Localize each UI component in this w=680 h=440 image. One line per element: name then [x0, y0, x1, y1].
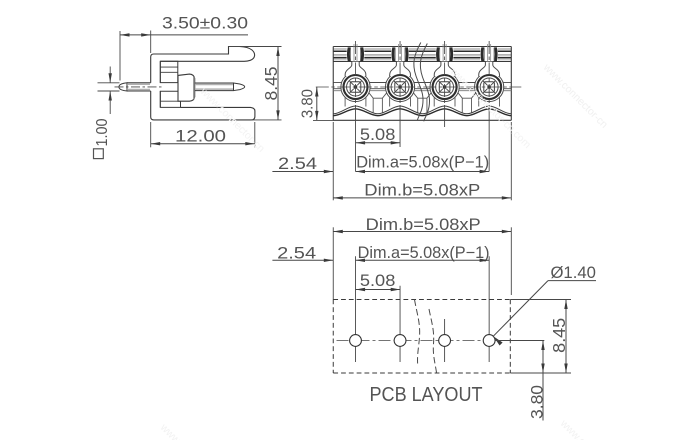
dimension 3.50±0.30	[120, 13, 248, 80]
pcb: horizontal center line	[337, 340, 545, 342]
svg-text:12.00: 12.00	[175, 126, 226, 145]
watermark	[157, 61, 610, 440]
front view: saddle bars	[333, 83, 511, 91]
pcb: break lines	[415, 300, 437, 375]
front view: terminal 2	[385, 62, 414, 102]
pcb: dimension 3.80	[495, 341, 546, 421]
pcb: dimension Ø1.40	[493, 263, 596, 346]
pcb: dimension 8.45	[510, 300, 571, 374]
pcb: dimension Dim.a	[356, 244, 490, 262]
pcb: holes	[350, 335, 495, 347]
svg-text:www.connector-cn: www.connector-cn	[540, 61, 610, 131]
svg-text:www.c: www.c	[157, 421, 188, 440]
side view: upper contact cage	[160, 61, 178, 82]
side view: right pin	[195, 83, 245, 91]
side view: lower contact cage	[160, 91, 180, 107]
dimension 12.00	[151, 122, 255, 147]
pcb: dimension 2.54	[272, 244, 333, 263]
front view: terminal center lines	[356, 41, 490, 172]
front view: terminal 3	[430, 62, 459, 102]
side view: housing outline	[151, 47, 255, 120]
dimension 5.08 (front)	[356, 125, 401, 145]
dimension 1.00 (square pin)	[94, 67, 120, 159]
dimension Dim.b (front)	[333, 122, 511, 200]
svg-text:www.c: www.c	[557, 417, 588, 440]
front view: wire entry slots	[347, 44, 498, 61]
pcb: hole center verticals	[356, 256, 490, 362]
svg-text:3.80: 3.80	[300, 89, 317, 118]
side view: inner wall	[159, 61, 161, 107]
svg-text:Dim.a=5.08x(P−1): Dim.a=5.08x(P−1)	[356, 153, 489, 171]
side view: left solder pin	[119, 83, 151, 91]
svg-text:Dim.a=5.08x(P−1): Dim.a=5.08x(P−1)	[358, 244, 490, 262]
pcb: caption	[370, 384, 483, 406]
dimension 3.80 (front)	[300, 87, 335, 120]
front view: break lines	[414, 43, 430, 122]
svg-text:5.08: 5.08	[360, 125, 396, 144]
dimension 2.54 (front)	[272, 154, 333, 173]
front view: terminal 4	[475, 62, 504, 102]
dimension Dim.a (front)	[356, 153, 490, 173]
svg-text:5.08: 5.08	[360, 271, 396, 290]
svg-text:Dim.b=5.08xP: Dim.b=5.08xP	[364, 182, 480, 200]
dimension 8.45 (side)	[229, 47, 282, 120]
front view: housing sides	[333, 47, 511, 121]
svg-text:2.54: 2.54	[277, 244, 316, 263]
side view: contact body	[178, 74, 195, 101]
svg-text:1.00: 1.00	[94, 118, 111, 146]
side view: pin center line	[115, 86, 162, 88]
front view: terminal 1	[341, 62, 370, 102]
pcb: dimension Dim.b	[333, 216, 511, 300]
front view: valleys and tabs	[345, 93, 499, 114]
front view: horizontal center line	[316, 86, 522, 88]
svg-text:PCB LAYOUT: PCB LAYOUT	[370, 384, 483, 406]
pcb: dimension 5.08	[356, 271, 401, 291]
svg-text:2.54: 2.54	[278, 154, 317, 173]
svg-text:Ø1.40: Ø1.40	[550, 263, 596, 282]
front view: top band rails	[333, 47, 511, 62]
pcb: board outline (dashed)	[333, 300, 510, 374]
front view: wavy bottom edge	[333, 106, 511, 116]
svg-text:3.50±0.30: 3.50±0.30	[162, 13, 248, 32]
